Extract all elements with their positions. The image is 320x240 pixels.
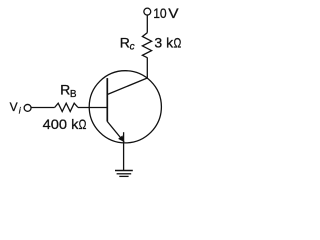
svg-text:V: V — [168, 5, 179, 21]
svg-text:Ω: Ω — [174, 35, 182, 51]
svg-text:400 k: 400 k — [43, 116, 80, 132]
svg-text:3 k: 3 k — [154, 35, 174, 51]
svg-text:i: i — [19, 105, 22, 115]
svg-text:c: c — [130, 41, 135, 52]
svg-text:10: 10 — [153, 5, 167, 21]
svg-text:R: R — [120, 35, 130, 51]
svg-text:B: B — [70, 89, 77, 100]
svg-text:Ω: Ω — [79, 116, 87, 132]
svg-text:V: V — [10, 100, 18, 114]
svg-text:R: R — [60, 82, 70, 98]
